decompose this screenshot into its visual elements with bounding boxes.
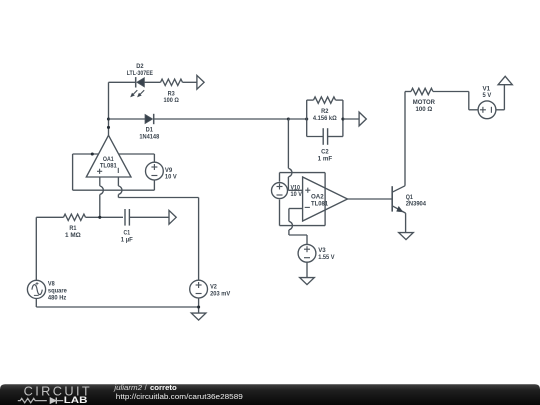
wire (V+ pin wire) [119, 153, 155, 155]
wire (+ input) [99, 177, 101, 186]
wire [328, 136, 343, 138]
node C [98, 216, 101, 219]
voltage source V10 [272, 183, 288, 199]
wire [288, 118, 306, 120]
flag (net flag after R2) [359, 112, 366, 126]
wire [109, 118, 146, 120]
svg-text:10 V: 10 V [165, 174, 177, 181]
wire [279, 173, 281, 182]
LED D2 emission arrows [133, 90, 137, 94]
svg-text:http://circuitlab.com/carut36e: http://circuitlab.com/carut36e28589 [116, 392, 243, 401]
svg-text:LTL-307EE: LTL-307EE [127, 70, 154, 77]
wire [144, 81, 160, 83]
capacitor C2 [322, 128, 324, 145]
svg-text:10 V: 10 V [291, 191, 303, 198]
node (OA1 output pin) [107, 126, 110, 129]
wire [36, 216, 63, 218]
wire [288, 230, 290, 235]
LED D2 [135, 77, 137, 87]
wire [129, 216, 169, 218]
wire (collector) [404, 92, 406, 186]
voltage source V1 [478, 101, 496, 119]
svg-text:100 Ω: 100 Ω [416, 106, 433, 113]
wire [343, 118, 359, 120]
voltage source V8 (square) [27, 280, 45, 298]
wire [336, 99, 343, 101]
wire hop [100, 186, 104, 195]
wire [307, 136, 324, 138]
wire [287, 119, 289, 168]
svg-text:R1: R1 [69, 225, 76, 232]
svg-text:5 V: 5 V [483, 92, 492, 99]
transistor Q1 [391, 186, 393, 211]
resistor R3 [161, 79, 183, 85]
logo resistor-diode glyph [18, 398, 47, 402]
svg-text:2N3904: 2N3904 [406, 201, 427, 208]
wire [306, 100, 308, 136]
wire [86, 216, 124, 218]
wire [306, 262, 308, 277]
capacitor C1 [124, 209, 126, 226]
wire hop [118, 186, 122, 195]
flag (net flag after C1) [169, 210, 176, 224]
svg-text:LAB: LAB [64, 395, 88, 405]
wire [117, 195, 119, 198]
svg-text:1.55 V: 1.55 V [318, 254, 335, 261]
svg-text:203 mV: 203 mV [210, 290, 231, 297]
resistor R2 [314, 97, 336, 103]
wire [280, 225, 326, 227]
resistor MOTOR [411, 88, 433, 94]
ground [300, 278, 315, 285]
wire [183, 81, 197, 83]
svg-text:480 Hz: 480 Hz [48, 294, 66, 301]
wire [307, 99, 314, 101]
wire (V- pin wire) [73, 153, 99, 155]
wire [280, 172, 326, 174]
wire hop over rail [289, 221, 293, 230]
svg-text:TL081: TL081 [100, 163, 117, 170]
wire [109, 81, 136, 83]
svg-text:D2: D2 [136, 63, 144, 70]
ground [399, 233, 414, 240]
svg-text:1N4148: 1N4148 [139, 133, 159, 140]
svg-text:TL081: TL081 [311, 200, 328, 207]
svg-text:1 mF: 1 mF [318, 155, 333, 162]
node [341, 117, 344, 120]
node D [197, 305, 200, 308]
node B [287, 117, 290, 120]
node [91, 152, 94, 155]
svg-text:1 µF: 1 µF [121, 237, 133, 244]
ground [191, 313, 206, 320]
node A (OA1 output) [107, 117, 110, 120]
voltage source V9 [146, 162, 164, 180]
wire [99, 195, 101, 218]
svg-text:1 MΩ: 1 MΩ [65, 232, 81, 239]
wire [279, 200, 281, 226]
wire (emitter) [405, 213, 407, 233]
flag (net flag after R3) [197, 75, 204, 89]
wire [35, 298, 37, 307]
node [305, 117, 308, 120]
flag (up arrow) [498, 76, 512, 84]
op-amp OA1 [86, 135, 131, 177]
wire [405, 91, 411, 93]
wire [433, 91, 469, 93]
svg-text:4.156 kΩ: 4.156 kΩ [313, 115, 337, 122]
svg-text:100 Ω: 100 Ω [164, 97, 179, 104]
op-amp OA2 [303, 177, 348, 221]
resistor R1 [64, 214, 86, 220]
wire [154, 118, 289, 120]
voltage source V3 [298, 244, 316, 262]
wire [108, 82, 110, 135]
wire (V+ / V- rail through OA2) [324, 173, 326, 226]
wire [496, 109, 505, 111]
wire [287, 177, 289, 190]
diode D1 [145, 115, 152, 124]
wire [153, 180, 155, 190]
wire [289, 208, 303, 210]
footer bar [0, 384, 540, 405]
wire hop over V10 rail [288, 168, 292, 177]
wire [198, 298, 200, 313]
wire [342, 100, 344, 136]
wire (- input) [117, 177, 119, 186]
wire (V- rail) [72, 154, 74, 190]
wire [348, 198, 393, 200]
voltage source V2 [190, 280, 208, 298]
